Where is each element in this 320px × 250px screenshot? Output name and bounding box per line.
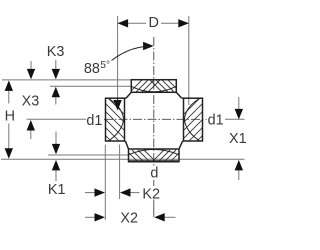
svg-text:X3: X3 [22,93,40,109]
svg-text:d1: d1 [208,113,224,129]
svg-text:d1: d1 [86,113,102,129]
svg-text:5°: 5° [100,60,110,71]
svg-text:d: d [150,165,158,181]
svg-text:X1: X1 [229,131,247,147]
svg-text:K2: K2 [142,187,160,203]
svg-text:X2: X2 [120,210,138,226]
svg-text:D: D [149,15,159,31]
svg-text:K1: K1 [48,182,66,198]
svg-text:H: H [5,109,15,125]
svg-text:88: 88 [84,61,100,77]
svg-text:K3: K3 [47,44,65,60]
